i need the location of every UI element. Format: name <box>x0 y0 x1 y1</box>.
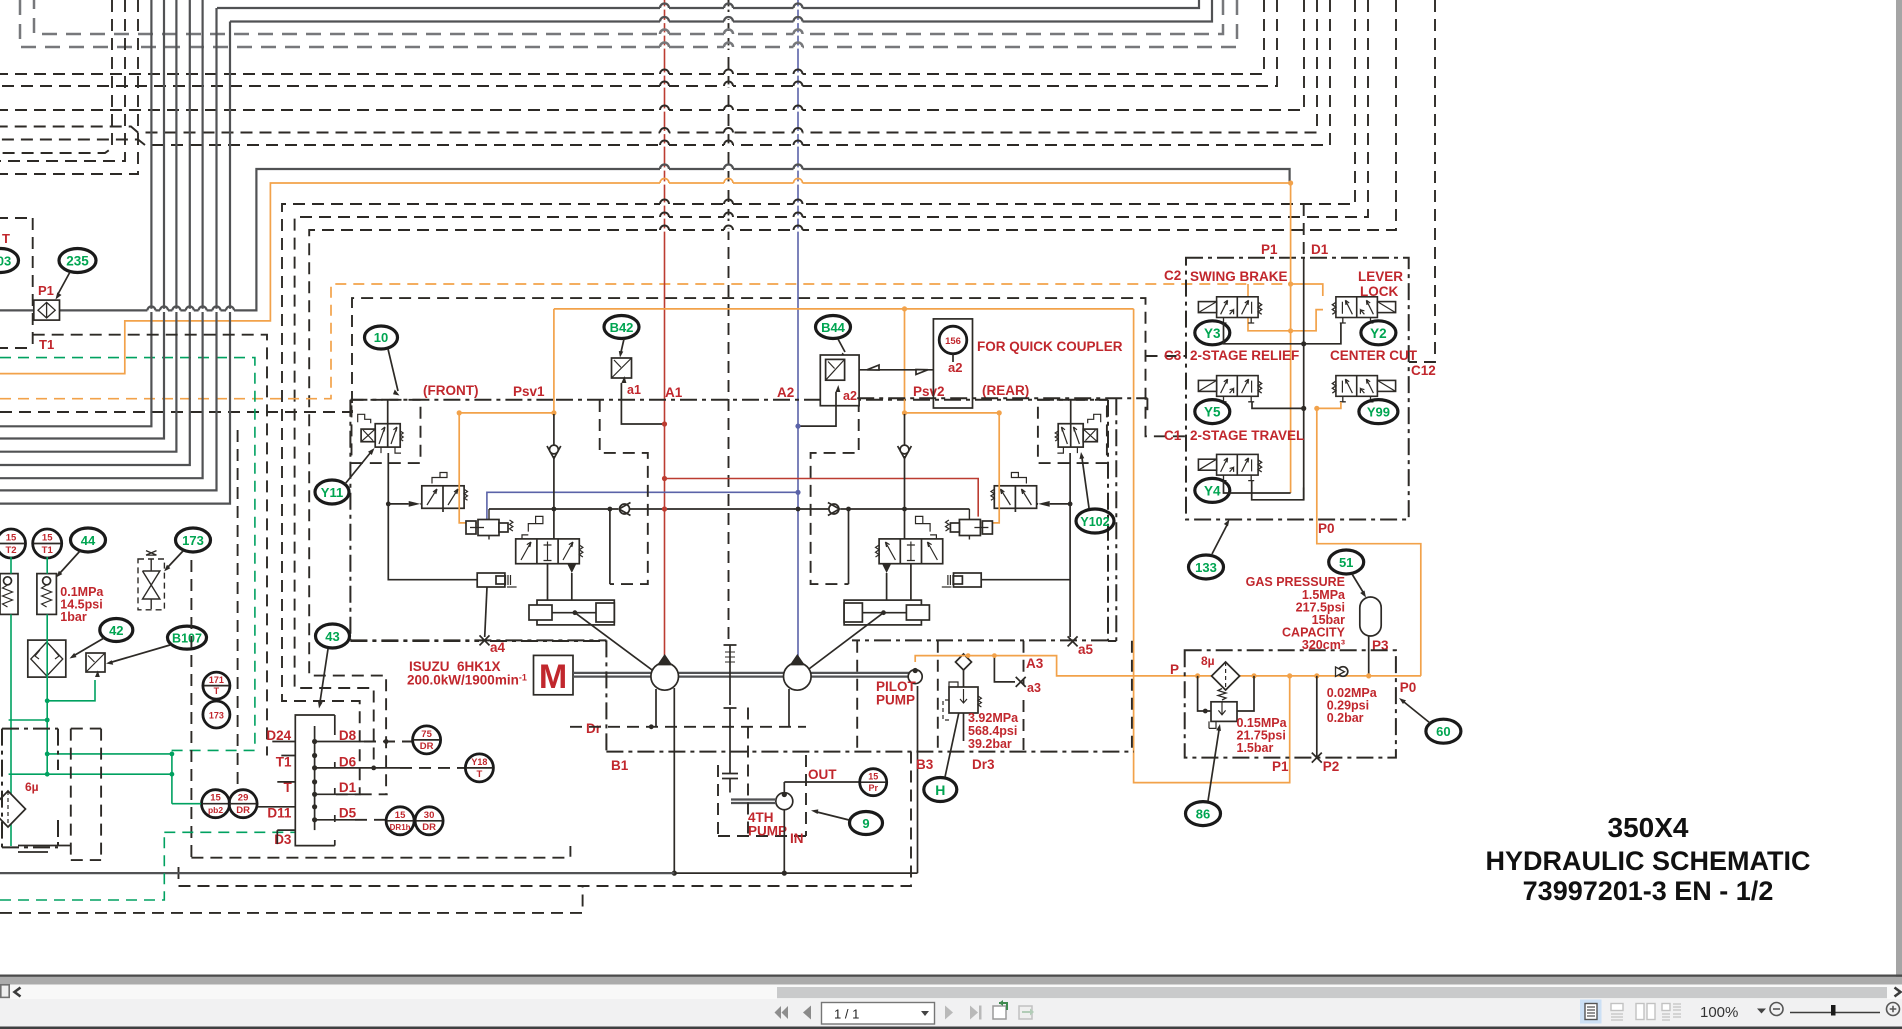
wire bundle B5 <box>0 0 203 478</box>
oval Y4 <box>1195 478 1230 502</box>
svg-text:350X4: 350X4 <box>1608 812 1689 843</box>
svg-text:03: 03 <box>0 254 11 269</box>
wire corner dashed left2 <box>0 0 138 174</box>
wire S1 solid gray P1 feed <box>0 169 1290 310</box>
wire Y4 to D1 <box>1252 481 1304 500</box>
svg-text:D1: D1 <box>339 780 357 795</box>
wire bus L9 dashed <box>0 0 1330 145</box>
svg-text:235: 235 <box>66 254 89 269</box>
svg-text:D11: D11 <box>267 806 292 821</box>
page bottom border <box>0 975 1902 977</box>
svg-text:a3: a3 <box>1027 681 1041 695</box>
solenoid B42 <box>612 358 632 383</box>
gauge 15/Pr <box>860 769 887 796</box>
svg-text:FOR QUICK COUPLER: FOR QUICK COUPLER <box>977 339 1123 354</box>
svg-text:Y2: Y2 <box>1370 326 1387 341</box>
junction dot pilot blue <box>796 507 801 512</box>
svg-text:P1: P1 <box>1261 242 1278 257</box>
green dashed T-branch <box>164 831 296 833</box>
oval Y3 <box>1195 321 1230 345</box>
svg-text:60: 60 <box>1436 724 1450 739</box>
wire bus L8 dashed <box>0 0 1317 133</box>
dash-dot mid rail <box>606 640 1134 751</box>
wire D1 row <box>315 793 360 795</box>
svg-text:Psv1: Psv1 <box>513 384 545 399</box>
wire red branch to rear pilot <box>665 479 979 517</box>
solenoid B107 <box>86 653 105 677</box>
svg-text:a5: a5 <box>1078 642 1094 657</box>
gear shaft <box>722 645 738 793</box>
wire bus L12 dashed to connector D8 <box>309 0 1396 794</box>
wire B42 to A1 <box>621 383 664 424</box>
orange psv riser rear <box>904 309 906 412</box>
oval 133 <box>1189 520 1230 580</box>
toolbar layout icon 4 <box>1662 1004 1681 1021</box>
oval 86 <box>1186 724 1221 826</box>
solenoid B44 <box>820 355 859 406</box>
oval B107 <box>106 626 207 665</box>
svg-text:86: 86 <box>1196 807 1210 822</box>
wire B1 drain <box>673 688 675 873</box>
oval 42 <box>70 619 133 659</box>
oval 235 <box>56 249 97 300</box>
bypass relief 86 <box>1198 676 1254 729</box>
svg-text:30: 30 <box>424 810 435 821</box>
toolbar bottom border <box>0 1027 1902 1029</box>
front pump regulator <box>350 400 664 641</box>
hscrollbar left box <box>1 985 9 998</box>
oval 173 top <box>164 528 211 572</box>
toolbar prev btn <box>803 1006 811 1020</box>
wire B44 to A2 <box>798 392 836 426</box>
right scrollbar strip <box>1896 0 1902 1029</box>
svg-text:CENTER CUT: CENTER CUT <box>1330 348 1418 363</box>
wire crossing hops <box>147 4 802 313</box>
svg-text:100%: 100% <box>1700 1004 1738 1021</box>
svg-text:A2: A2 <box>777 385 794 400</box>
svg-text:73997201-3 EN - 1/2: 73997201-3 EN - 1/2 <box>1523 876 1774 906</box>
gauge Y18/T <box>465 754 493 782</box>
svg-text:A3: A3 <box>1026 656 1044 671</box>
pilot relief valve <box>943 654 981 741</box>
svg-text:DR: DR <box>420 741 434 752</box>
pump drain stubs <box>656 689 789 727</box>
svg-text:43: 43 <box>325 629 339 644</box>
pin stubs left <box>257 742 295 845</box>
tank dash-dot box <box>2 729 58 848</box>
swash link front <box>575 613 671 684</box>
toolbar background <box>0 999 1902 1027</box>
drive shaft <box>573 673 651 677</box>
wire bus L1 solid <box>217 0 1199 8</box>
svg-text:15: 15 <box>210 793 221 804</box>
gauge 15/pb2 <box>202 790 230 818</box>
hscrollbar track <box>0 985 1902 1000</box>
svg-text:39.2bar: 39.2bar <box>968 737 1012 751</box>
P1 port box <box>0 218 33 348</box>
gauge 30/DR <box>415 807 443 835</box>
svg-text:a1: a1 <box>627 383 641 397</box>
a4 cross <box>480 635 490 645</box>
wire O1 orange P1 line <box>0 183 1291 374</box>
check valve P0 <box>1336 667 1348 677</box>
hscrollbar thumb <box>777 987 1887 998</box>
gauge 75/DR <box>413 726 441 754</box>
orifice component <box>34 300 60 320</box>
rear box bottom extension <box>1108 398 1116 641</box>
svg-text:B1: B1 <box>611 758 629 773</box>
svg-text:C1: C1 <box>1164 428 1182 443</box>
orange psv header <box>554 308 1134 310</box>
connector body <box>295 715 335 846</box>
svg-text:Y3: Y3 <box>1204 326 1221 341</box>
wire in <box>783 810 785 873</box>
svg-text:Pr: Pr <box>868 783 878 793</box>
wire a3 branch <box>994 656 1015 682</box>
wire D1 vertical <box>1303 204 1305 258</box>
svg-text:Y99: Y99 <box>1367 405 1390 420</box>
oval B42 <box>604 316 639 358</box>
svg-text:1bar: 1bar <box>60 610 87 624</box>
svg-text:C3: C3 <box>1164 348 1182 363</box>
oval Y11 <box>315 448 375 504</box>
green rung <box>9 719 48 721</box>
svg-text:IN: IN <box>790 831 804 846</box>
valve Y99 <box>1332 376 1395 402</box>
oval H <box>924 706 961 802</box>
relief valve T2 <box>0 574 18 615</box>
rear pump regulator (mirrored) <box>794 400 1108 641</box>
quick coupler 156 <box>933 319 972 408</box>
svg-text:75: 75 <box>421 729 432 740</box>
gauge 15/DR1h <box>386 807 414 835</box>
svg-text:D5: D5 <box>339 806 357 821</box>
wire orange Y3 bottom to P1 <box>1248 310 1323 331</box>
svg-text:(REAR): (REAR) <box>982 383 1029 398</box>
svg-text:B3: B3 <box>916 757 934 772</box>
connector spine <box>314 726 316 830</box>
toolbar zoom slider thumb <box>1831 1005 1836 1016</box>
svg-text:PUMP: PUMP <box>876 693 915 708</box>
wire bundle B7 <box>0 22 230 504</box>
wire T1 to connector <box>33 335 267 756</box>
a4 rail <box>350 640 606 642</box>
svg-text:HYDRAULIC SCHEMATIC: HYDRAULIC SCHEMATIC <box>1486 846 1811 876</box>
oval 44 <box>56 528 106 578</box>
junction dot blue branch <box>795 490 800 495</box>
wire pilot line bridge <box>665 508 795 510</box>
gauge 15/T2 <box>0 529 26 558</box>
svg-text:Dr3: Dr3 <box>972 757 995 772</box>
svg-text:10: 10 <box>374 330 388 345</box>
svg-text:P1: P1 <box>38 283 54 298</box>
wire orange C2 to Y2 spring <box>1291 284 1323 296</box>
green junction dots <box>45 698 50 703</box>
svg-text:Y11: Y11 <box>321 485 343 500</box>
oval B103 partial <box>0 249 19 273</box>
junction dot red branch <box>662 476 667 481</box>
svg-text:0.2bar: 0.2bar <box>1327 711 1364 725</box>
toolbar zoom-out <box>1770 1003 1783 1016</box>
wire bus L5 dashed <box>0 0 1264 74</box>
svg-text:Y5: Y5 <box>1204 405 1221 420</box>
wire bus C12 dashed <box>1409 0 1435 362</box>
swash link rear <box>789 613 884 684</box>
wire red A1 vertical <box>664 0 666 658</box>
oval Y5 <box>1195 400 1230 424</box>
svg-text:15: 15 <box>868 772 878 782</box>
toolbar snapshot icon 2 <box>1019 1006 1034 1019</box>
valve bank box <box>1186 258 1409 520</box>
pump 2 <box>784 656 812 691</box>
wire C3 branch <box>1146 355 1187 357</box>
svg-text:3.92MPa: 3.92MPa <box>968 711 1019 725</box>
hscrollbar right chevron <box>1895 988 1901 997</box>
toolbar last-page btn <box>970 1006 982 1020</box>
wire bundle B6 <box>0 8 217 490</box>
wire bottom dashed 913 <box>0 886 583 913</box>
svg-text:6µ: 6µ <box>25 780 39 794</box>
svg-text:LEVER: LEVER <box>1358 269 1403 284</box>
wire pilot drain <box>917 686 919 873</box>
svg-text:T1: T1 <box>39 337 54 352</box>
toolbar next btn <box>945 1006 953 1020</box>
svg-text:15: 15 <box>6 533 17 544</box>
wire P2 drop <box>1316 676 1318 758</box>
toolbar zoom dropdown <box>1757 1009 1766 1014</box>
svg-text:Dr: Dr <box>586 721 602 736</box>
4th pump <box>776 793 793 810</box>
a5 cross <box>1068 636 1078 646</box>
wire bus L10 dashed to connector D1 <box>282 0 1355 794</box>
relief valve T1 <box>37 574 57 615</box>
svg-text:171: 171 <box>209 675 224 685</box>
svg-text:(FRONT): (FRONT) <box>423 383 478 398</box>
svg-text:a2: a2 <box>948 360 962 375</box>
oval Y99 <box>1359 400 1398 424</box>
gauge 29/DR <box>229 790 257 818</box>
svg-text:D1: D1 <box>1311 242 1329 257</box>
wire bundle B3 <box>0 0 176 452</box>
rear box top edge <box>857 397 1147 399</box>
svg-text:42: 42 <box>109 623 123 638</box>
toolbar snapshot icon 1 <box>993 1000 1007 1019</box>
hscrollbar left chevron <box>15 988 21 997</box>
oval 60 <box>1399 698 1461 743</box>
wire D5 row <box>315 819 355 821</box>
svg-text:29: 29 <box>238 793 249 804</box>
wire Y2 drain <box>1304 323 1341 344</box>
wire bus L4 dashed <box>20 0 1237 47</box>
svg-text:Y4: Y4 <box>1204 483 1221 498</box>
toolbar layout icon 2 <box>1611 1004 1623 1021</box>
svg-text:GAS PRESSURE: GAS PRESSURE <box>1246 575 1345 589</box>
svg-text:P0: P0 <box>1318 521 1335 536</box>
wire O2 orange dashed C2 <box>0 284 1291 399</box>
svg-text:T1: T1 <box>276 754 292 769</box>
wire bundle B1 <box>0 0 151 426</box>
bypass valve 173 <box>138 551 164 610</box>
wire bus L6 dashed <box>0 0 1277 86</box>
svg-text:8µ: 8µ <box>1201 654 1215 668</box>
svg-text:C2: C2 <box>1164 268 1181 283</box>
junction dot pilot red <box>662 506 667 511</box>
wire bus L7 dashed <box>0 0 1304 110</box>
dash-dot top rail between boxes <box>350 399 1108 401</box>
toolbar page box <box>822 1003 935 1025</box>
tank inner box <box>71 729 101 861</box>
oval Y102 <box>1076 452 1114 533</box>
dashed vertical 237 <box>237 430 239 790</box>
wire orange C2 to Y3 top <box>1247 284 1249 296</box>
toolbar zoom-in <box>1887 1003 1900 1016</box>
oval Y2 <box>1361 321 1396 345</box>
gauge 171/T <box>203 672 230 699</box>
svg-text:OUT: OUT <box>808 767 837 782</box>
pilot pump <box>908 669 922 684</box>
filter box 86 <box>1185 650 1396 757</box>
label gas pressure <box>1246 575 1346 652</box>
svg-text:C12: C12 <box>1411 363 1436 378</box>
wire piston to a4 <box>485 587 487 637</box>
svg-text:P: P <box>1170 662 1179 677</box>
P2 cross <box>1312 753 1322 763</box>
green B107 branch <box>47 680 95 701</box>
svg-text:P2: P2 <box>1323 759 1340 774</box>
svg-text:A1: A1 <box>665 385 683 400</box>
svg-text:44: 44 <box>81 533 96 548</box>
toolbar page dropdown <box>921 1011 929 1016</box>
svg-text:Y102: Y102 <box>1080 515 1109 529</box>
svg-text:DR1h: DR1h <box>390 823 411 832</box>
wire P3 <box>1368 636 1370 676</box>
wire Y3 drain <box>1224 323 1304 344</box>
svg-text:T: T <box>2 231 10 246</box>
pump 1 <box>651 656 679 691</box>
wire blue A2 vertical <box>797 0 799 658</box>
svg-text:51: 51 <box>1339 555 1353 570</box>
orange psv drop to P <box>1134 309 1290 783</box>
svg-text:T: T <box>214 686 220 696</box>
wire bundle B4 <box>0 0 190 465</box>
4th pump dashed box <box>718 708 806 837</box>
gauge 173b <box>203 701 230 728</box>
svg-text:Psv2: Psv2 <box>913 384 945 399</box>
valve Y3 <box>1198 297 1261 323</box>
wire Y99 orange drop <box>1317 402 1341 520</box>
svg-text:133: 133 <box>1195 560 1217 575</box>
wire Y4 drain <box>1224 481 1291 493</box>
wire orange P1 into bank <box>1290 183 1292 493</box>
wire bus L9b dashed <box>0 0 112 153</box>
svg-text:DR: DR <box>422 822 436 833</box>
wire blue branch to front pilot <box>487 492 798 519</box>
wire bus L2 solid <box>230 0 1212 22</box>
svg-text:H: H <box>935 782 945 798</box>
svg-text:PUMP: PUMP <box>748 824 787 839</box>
svg-text:P0: P0 <box>1400 680 1417 695</box>
dashed vertical 191 <box>190 560 192 858</box>
svg-text:9: 9 <box>862 816 869 831</box>
orange P0 link <box>1317 520 1421 676</box>
svg-text:M: M <box>539 658 567 696</box>
tank bottom lines <box>18 846 70 853</box>
junction dot orange P1 <box>1288 180 1293 185</box>
svg-text:Y18: Y18 <box>471 757 487 767</box>
svg-text:173: 173 <box>209 711 224 721</box>
svg-text:P1: P1 <box>1272 759 1289 774</box>
svg-text:DR: DR <box>236 805 250 816</box>
svg-text:SWING BRAKE: SWING BRAKE <box>1190 269 1288 284</box>
wire drain bottom <box>674 872 917 874</box>
svg-text:1.5bar: 1.5bar <box>1237 741 1274 755</box>
svg-text:B107: B107 <box>172 632 202 646</box>
svg-text:15: 15 <box>395 810 406 821</box>
filter diamond 8u <box>1212 662 1240 690</box>
wire bundle B2 <box>0 0 164 439</box>
gauge 15/T1 <box>33 529 62 558</box>
wire corner dashed left <box>0 0 125 161</box>
connector pin dots <box>312 739 317 823</box>
wire bus L3 dashed <box>34 0 1223 34</box>
svg-text:15: 15 <box>42 533 53 544</box>
valve Y5 <box>1198 376 1261 402</box>
svg-text:T2: T2 <box>5 545 16 556</box>
svg-text:2-STAGE RELIEF: 2-STAGE RELIEF <box>1190 348 1299 363</box>
valve Y2 <box>1332 297 1395 323</box>
svg-text:156: 156 <box>945 336 961 347</box>
toolbar layout icon 3 <box>1636 1004 1655 1020</box>
svg-text:1 / 1: 1 / 1 <box>834 1007 859 1022</box>
junction dot psv rear <box>902 306 907 311</box>
accumulator <box>1360 597 1381 636</box>
wire B44 to coupler <box>859 365 933 375</box>
wire K1 dashed C3 <box>0 298 1186 436</box>
toolbar first-page btn <box>775 1006 789 1019</box>
orange pilot main <box>915 656 1421 676</box>
toolbar zoom slider <box>1790 1012 1880 1014</box>
wire bottom dashed 858 <box>191 846 570 858</box>
pilot box dashed <box>857 641 1132 752</box>
wire Y5 drain <box>1252 402 1304 408</box>
wire G1 green dashed <box>0 358 255 751</box>
svg-text:pb2: pb2 <box>208 805 223 815</box>
svg-text:173: 173 <box>182 533 204 548</box>
big outer dashed box bottom <box>179 752 912 886</box>
wire bottom solid <box>0 872 674 874</box>
oval B44 <box>816 316 851 358</box>
toolbar layout icon selected <box>1580 1000 1602 1024</box>
oval 51 <box>1329 550 1366 598</box>
orange psv riser front <box>553 309 555 413</box>
oil cooler 42 <box>28 640 66 677</box>
wire rear a5 drop <box>1069 580 1071 637</box>
wire C1 stub <box>1146 398 1148 412</box>
wire bus L11 dashed to connector D6 <box>295 0 1368 768</box>
wire Dr dashed <box>570 726 806 728</box>
gray band under page <box>0 977 1902 985</box>
wire bottom green <box>0 832 164 900</box>
wire D8 row <box>315 741 364 743</box>
green supply net <box>9 557 201 846</box>
wire out <box>784 781 860 783</box>
wire dashed center vertical <box>728 0 730 645</box>
svg-text:2-STAGE TRAVEL: 2-STAGE TRAVEL <box>1190 428 1304 443</box>
svg-text:200.0kW/1900min-1: 200.0kW/1900min-1 <box>407 673 527 688</box>
suction filter diamond <box>0 791 26 827</box>
svg-text:a2: a2 <box>843 389 857 403</box>
svg-text:T: T <box>476 769 482 780</box>
